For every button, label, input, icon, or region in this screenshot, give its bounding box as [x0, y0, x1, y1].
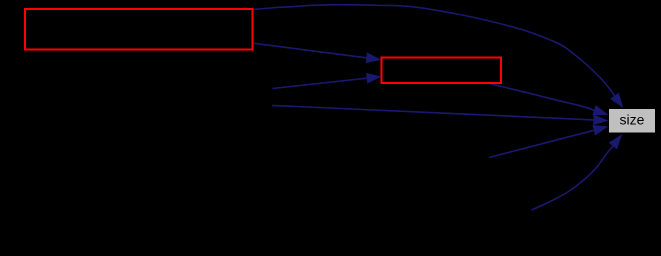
node size (gray filled): [609, 109, 655, 133]
arrowhead E5: [593, 115, 608, 126]
arrowhead E2: [366, 52, 382, 63]
wire edge E6: hidden node to size left-bottom: [489, 130, 594, 157]
wire edge E5: hidden node to size left: [272, 105, 593, 120]
wire edge E4: node2 bottom-right to size left: [490, 84, 594, 111]
wire edge E3: hidden node to node2 left-bottom: [273, 78, 367, 88]
arrowhead E4: [592, 105, 608, 115]
arrowhead E1: [610, 93, 623, 108]
wire edge E1: node1 top-right arc over to size top: [253, 5, 614, 96]
node box2 (red outline, hidden label): [382, 58, 502, 84]
node box1 (red outline, hidden label): [25, 9, 253, 50]
wire edge E7: hidden node curve up to size bottom: [532, 146, 613, 210]
svg-text:size: size: [620, 112, 645, 128]
arrowhead E6: [592, 125, 608, 136]
wire edge E2: node1 right to node2 left-top: [254, 43, 367, 58]
arrowhead E7: [609, 134, 623, 149]
arrowhead E3: [366, 73, 382, 84]
